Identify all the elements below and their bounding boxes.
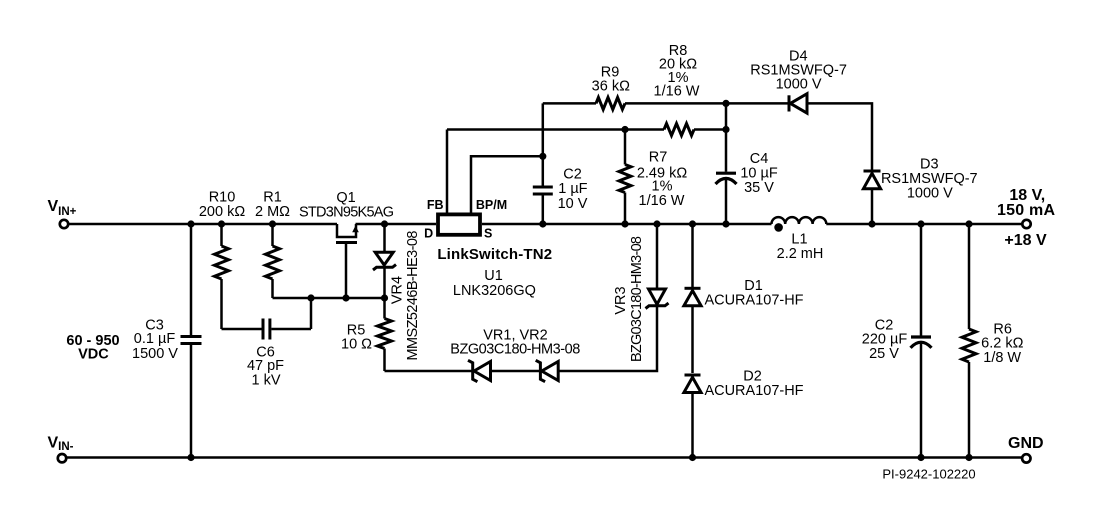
junction C2 bypass bottom bbox=[539, 220, 546, 227]
resistor R9 bbox=[596, 97, 625, 109]
junction R10 tap bbox=[218, 220, 225, 227]
junction R6 top bbox=[965, 220, 972, 227]
wire R9 to D4 bbox=[625, 102, 789, 105]
svg-text:LNK3206GQ: LNK3206GQ bbox=[453, 283, 536, 299]
svg-text:35 V: 35 V bbox=[744, 180, 774, 196]
wire VR2 to VR3 bbox=[559, 306, 657, 372]
wire FB node y=130 to R8 bbox=[447, 128, 664, 131]
svg-text:VR3: VR3 bbox=[613, 286, 629, 314]
svg-text:0.1 µF: 0.1 µF bbox=[134, 331, 176, 347]
svg-text:VR4: VR4 bbox=[390, 276, 406, 304]
svg-text:STD3N95K5AG: STD3N95K5AG bbox=[299, 205, 394, 221]
svg-text:LinkSwitch-TN2: LinkSwitch-TN2 bbox=[437, 246, 552, 263]
capacitor C3 bbox=[181, 224, 202, 458]
svg-text:1 µF: 1 µF bbox=[558, 181, 587, 197]
capacitor C6 bbox=[222, 298, 312, 340]
zener VR2 bbox=[536, 360, 559, 381]
wire top rail L1 to output terminal bbox=[826, 223, 1022, 226]
svg-text:VIN-: VIN- bbox=[48, 435, 74, 454]
junction bottom rail D2 bbox=[689, 454, 696, 461]
wire VR1 to VR2 bbox=[491, 370, 542, 373]
svg-text:2 MΩ: 2 MΩ bbox=[255, 204, 290, 220]
zener VR3 bbox=[646, 224, 669, 309]
svg-text:10 V: 10 V bbox=[558, 196, 588, 212]
diode D2 bbox=[684, 375, 701, 458]
resistor R10 bbox=[215, 224, 229, 329]
svg-text:MMSZ5246B-HE3-08: MMSZ5246B-HE3-08 bbox=[405, 231, 421, 361]
svg-text:VDC: VDC bbox=[78, 347, 109, 363]
svg-text:S: S bbox=[484, 227, 492, 241]
diode D1 bbox=[684, 224, 701, 373]
junction C6 to gate line bbox=[307, 294, 314, 301]
junction bottom rail C3 bbox=[187, 454, 194, 461]
junction VR4 tap bbox=[381, 220, 388, 227]
svg-text:1 kV: 1 kV bbox=[251, 373, 280, 389]
svg-text:1500 V: 1500 V bbox=[132, 346, 178, 362]
junction bottom rail C2 output bbox=[917, 454, 924, 461]
svg-text:10 µF: 10 µF bbox=[740, 166, 778, 182]
diode D3 bbox=[863, 171, 880, 224]
svg-text:2.2 mH: 2.2 mH bbox=[777, 246, 824, 262]
svg-text:BZG03C180-HM3-08: BZG03C180-HM3-08 bbox=[450, 342, 580, 358]
junction C2 output top bbox=[917, 220, 924, 227]
resistor R1 bbox=[266, 224, 280, 298]
svg-text:1000 V: 1000 V bbox=[907, 185, 953, 201]
svg-text:10 Ω: 10 Ω bbox=[341, 337, 372, 353]
junction C4 bottom bbox=[722, 220, 729, 227]
resistor R5 bbox=[378, 298, 392, 371]
svg-text:D: D bbox=[424, 227, 433, 241]
svg-text:BZG03C180-HM3-08: BZG03C180-HM3-08 bbox=[629, 236, 645, 362]
zener VR4 bbox=[373, 224, 396, 298]
wire R9 node y=103 bbox=[543, 102, 596, 105]
capacitor C4 bbox=[716, 103, 737, 224]
svg-text:1/16 W: 1/16 W bbox=[654, 84, 700, 100]
junction bottom rail R6 bbox=[965, 454, 972, 461]
zener VR1 bbox=[468, 360, 491, 381]
capacitor C2 output bbox=[911, 224, 932, 458]
junction dots top rail bbox=[187, 100, 972, 461]
svg-text:FB: FB bbox=[427, 198, 444, 212]
wire top rail VIN+ to Q1 bbox=[69, 223, 337, 226]
wire top rail U1 S pin to L1 bbox=[482, 223, 772, 226]
terminal VIN+ bbox=[60, 220, 68, 228]
capacitor C2 bypass bbox=[533, 103, 553, 224]
svg-text:R7: R7 bbox=[649, 150, 668, 166]
junction D1 top bbox=[689, 220, 696, 227]
svg-text:ACURA107-HF: ACURA107-HF bbox=[704, 383, 803, 399]
svg-text:36 kΩ: 36 kΩ bbox=[592, 79, 630, 95]
svg-text:1%: 1% bbox=[652, 179, 673, 195]
terminal VIN- bbox=[58, 454, 66, 462]
junction Q1 gate line bbox=[342, 294, 349, 301]
svg-text:150 mA: 150 mA bbox=[997, 202, 1055, 219]
op-amp U1 LinkSwitch-TN2 body bbox=[438, 214, 480, 234]
wire D4 to D3 bbox=[807, 103, 872, 169]
diode D4 bbox=[789, 94, 807, 113]
junction R7 top FB line bbox=[621, 126, 628, 133]
svg-text:25 V: 25 V bbox=[869, 346, 899, 362]
wire bottom rail VIN- to GND terminal bbox=[67, 456, 1022, 459]
junction R7 bottom bbox=[621, 220, 628, 227]
transistor Q1 bbox=[336, 224, 359, 298]
junction D3 bottom bbox=[868, 220, 875, 227]
junction C3 tap bbox=[187, 220, 194, 227]
svg-text:ACURA107-HF: ACURA107-HF bbox=[704, 293, 803, 309]
svg-text:1000 V: 1000 V bbox=[776, 77, 822, 93]
svg-text:U1: U1 bbox=[484, 268, 503, 284]
svg-text:GND: GND bbox=[1008, 435, 1044, 452]
svg-text:BP/M: BP/M bbox=[476, 198, 507, 212]
svg-text:PI-9242-102220: PI-9242-102220 bbox=[882, 467, 975, 482]
svg-text:+18 V: +18 V bbox=[1004, 232, 1047, 249]
wire R5 to VR1 bbox=[385, 370, 473, 373]
svg-text:VIN+: VIN+ bbox=[48, 198, 77, 218]
junction VR3 top bbox=[653, 220, 660, 227]
resistor R7 bbox=[619, 130, 631, 225]
junction R1 tap bbox=[269, 220, 276, 227]
svg-text:1/8 W: 1/8 W bbox=[983, 350, 1021, 366]
wire R8 to C4 top bbox=[694, 128, 726, 131]
junction R9 line to C4 bbox=[722, 100, 729, 107]
svg-text:1/16 W: 1/16 W bbox=[639, 193, 685, 209]
junction BP/M node bbox=[539, 153, 546, 160]
terminal +18V output bbox=[1022, 220, 1030, 228]
resistor R8 bbox=[664, 124, 694, 136]
pin BP/M wire bbox=[471, 156, 542, 214]
wire top rail Q1 to U1 D pin bbox=[356, 223, 437, 226]
svg-text:200 kΩ: 200 kΩ bbox=[199, 204, 245, 220]
inductor L1 bbox=[772, 217, 827, 232]
terminal GND bbox=[1022, 454, 1030, 462]
wire node gate line y=298 bbox=[273, 297, 385, 300]
resistor R6 bbox=[962, 224, 976, 458]
junction FB line to C4 bbox=[722, 126, 729, 133]
pin FB wire bbox=[446, 130, 449, 215]
junction VR4 R5 node bbox=[381, 294, 388, 301]
